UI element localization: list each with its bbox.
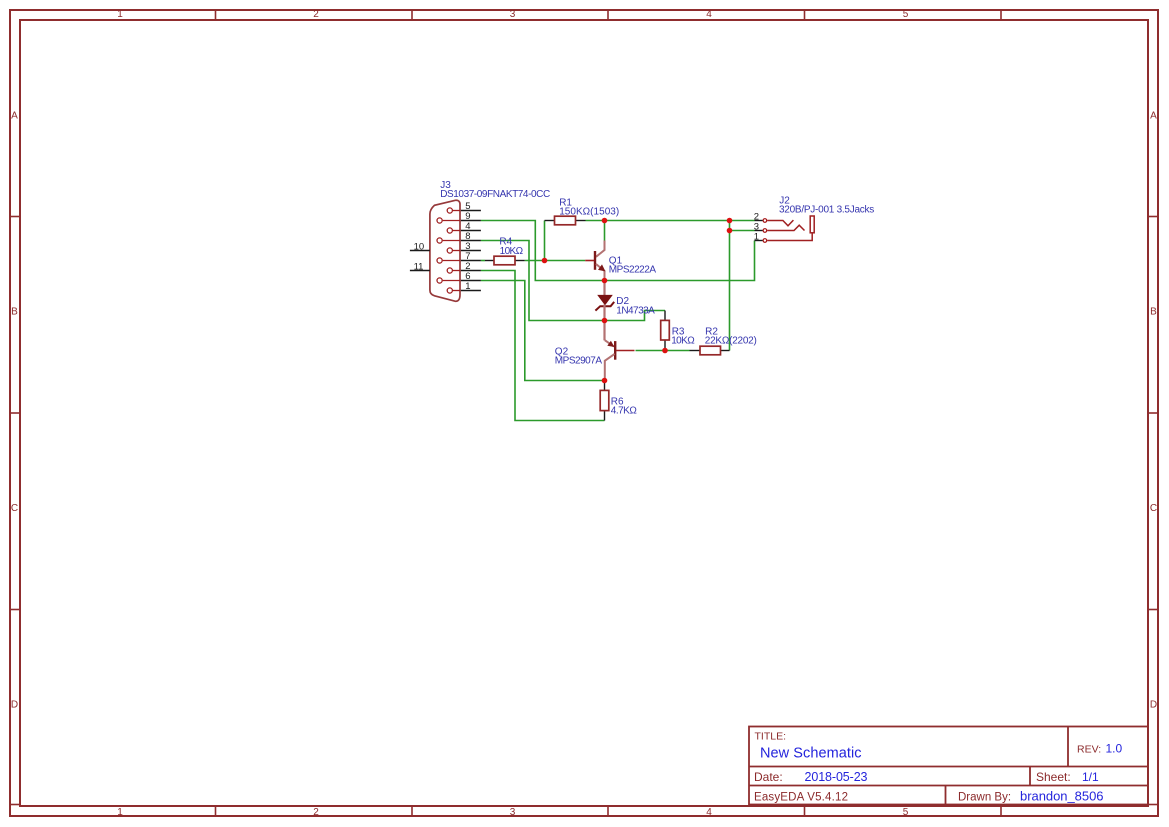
svg-text:B: B (11, 307, 18, 318)
J3 pin circles and stubs (437, 208, 460, 293)
svg-text:1: 1 (117, 807, 123, 818)
pin3 ring contact (767, 225, 804, 230)
base bar (614, 341, 616, 360)
wire J2 pin3 (730, 230, 755, 232)
svg-text:C: C (1150, 503, 1157, 514)
svg-text:320B/PJ-001 3.5Jacks: 320B/PJ-001 3.5Jacks (779, 205, 874, 216)
svg-text:4: 4 (706, 9, 712, 20)
svg-text:D: D (1150, 700, 1157, 711)
resistor R4 10K (485, 237, 525, 265)
wire J2 drop to R2 right (729, 221, 731, 351)
pin lines (755, 221, 763, 241)
pin circles (763, 219, 767, 243)
svg-text:TITLE:: TITLE: (755, 731, 787, 743)
svg-text:5: 5 (903, 9, 909, 20)
wire pin7 stub (481, 260, 485, 262)
wire R1 right to J2 pin2 (586, 220, 755, 222)
zener diode D2 1N4733A (595, 281, 655, 341)
node R3.2/R2.1 (662, 348, 668, 354)
svg-text:REV:: REV: (1077, 744, 1101, 756)
collector (605, 354, 615, 381)
transistor Q1 MPS2222A (585, 241, 656, 281)
svg-text:11: 11 (414, 262, 424, 273)
resistor R2 22K (690, 326, 757, 354)
node D2 cathode (602, 318, 608, 324)
contacts (767, 216, 814, 241)
svg-text:Sheet:: Sheet: (1036, 770, 1071, 784)
wire Q2 base to R2 left (636, 350, 690, 352)
svg-text:1/1: 1/1 (1082, 770, 1099, 784)
cathode pin (603, 305, 605, 341)
svg-text:New Schematic: New Schematic (760, 746, 862, 762)
svg-text:1N4733A: 1N4733A (616, 305, 655, 316)
svg-text:A: A (11, 111, 18, 122)
svg-text:2: 2 (313, 9, 319, 20)
resistor R6 4.7K vertical (600, 381, 637, 421)
emitter with arrow (596, 264, 605, 281)
svg-text:4.7KΩ: 4.7KΩ (611, 406, 638, 417)
svg-text:1: 1 (117, 9, 123, 20)
base pin (585, 260, 594, 262)
collector pin (596, 241, 605, 257)
svg-text:22KΩ(2202): 22KΩ(2202) (705, 336, 757, 347)
wire Q1 emitter node to J2 pin1 (605, 241, 755, 281)
emitter with arrow toward bar (605, 340, 614, 346)
svg-text:2018-05-23: 2018-05-23 (805, 770, 868, 784)
pin2 tip contact (767, 220, 793, 226)
zener bar (595, 302, 614, 311)
wire pin2 to R6 bottom (481, 271, 605, 421)
base pin (616, 350, 635, 352)
svg-text:brandon_8506: brandon_8506 (1020, 789, 1104, 804)
pin1 sleeve (767, 234, 812, 241)
svg-text:D: D (11, 700, 18, 711)
triangle (598, 295, 612, 304)
wire pin8 to D2 cathode and R3 top (481, 241, 665, 321)
svg-text:1: 1 (754, 232, 759, 243)
wire pin6 to Q2 collector (481, 281, 605, 381)
svg-text:C: C (11, 503, 18, 514)
node Q2 collector (602, 378, 608, 384)
node R1.1/base (542, 258, 548, 264)
connector J3 DS1037-09FNAKT74-0CC (410, 180, 550, 301)
J3 shell pins 10 11 (410, 250, 430, 252)
connector J2 320B/PJ-001 3.5Jacks (754, 195, 875, 242)
svg-text:10: 10 (414, 242, 425, 253)
node Q1 emitter (602, 278, 608, 284)
J3 pin numbers (414, 201, 471, 292)
wire R4 to Q1 base (525, 260, 586, 262)
pin numbers (754, 212, 759, 243)
J3 body (430, 200, 460, 301)
svg-text:1: 1 (465, 281, 470, 292)
transistor Q2 MPS2907A (555, 340, 635, 380)
node collector/R1.2 (602, 218, 608, 224)
svg-text:10KΩ: 10KΩ (500, 246, 524, 257)
wire R1 left drop to base node (544, 221, 546, 261)
resistor R3 10K vertical (661, 311, 696, 351)
wire collector node down (604, 221, 606, 241)
junction dots (542, 218, 733, 384)
J3 pin lines (410, 211, 481, 291)
svg-text:1.0: 1.0 (1106, 742, 1123, 756)
node J2 pin3 (727, 228, 733, 234)
resistor R1 150K (545, 198, 620, 225)
svg-text:A: A (1150, 111, 1157, 122)
svg-text:MPS2907A: MPS2907A (555, 355, 603, 366)
svg-text:150KΩ(1503): 150KΩ(1503) (559, 206, 619, 217)
wire pin9 to Q1 emitter node (481, 221, 605, 281)
svg-text:DS1037-09FNAKT74-0CC: DS1037-09FNAKT74-0CC (440, 189, 550, 200)
svg-text:4: 4 (706, 807, 712, 818)
node J2 pin2 (727, 218, 733, 224)
base bar (594, 251, 596, 270)
svg-text:2: 2 (313, 807, 319, 818)
svg-text:Drawn By:: Drawn By: (958, 792, 1011, 804)
svg-text:3: 3 (510, 807, 516, 818)
svg-text:B: B (1150, 307, 1157, 318)
svg-text:10KΩ: 10KΩ (671, 336, 695, 347)
svg-text:Date:: Date: (754, 770, 783, 784)
svg-text:MPS2222A: MPS2222A (609, 265, 657, 276)
anode pin from emitter node (603, 281, 605, 296)
svg-text:5: 5 (903, 807, 909, 818)
svg-text:3: 3 (510, 9, 516, 20)
title block (749, 727, 1148, 805)
svg-text:EasyEDA V5.4.12: EasyEDA V5.4.12 (754, 792, 848, 804)
